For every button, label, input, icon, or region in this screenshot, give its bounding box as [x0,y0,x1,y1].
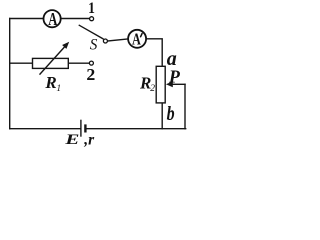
svg-text:R: R [44,73,56,92]
svg-text:1: 1 [88,0,95,17]
svg-text:b: b [167,102,175,124]
svg-text:2: 2 [150,84,155,94]
svg-text:S: S [90,36,98,53]
svg-text:A: A [48,10,58,30]
svg-text:A: A [132,31,141,49]
svg-text:,r: ,r [83,132,95,148]
svg-text:1: 1 [56,84,61,94]
svg-text:2: 2 [86,65,95,83]
svg-text:E: E [64,131,79,147]
svg-text:P: P [168,67,181,87]
